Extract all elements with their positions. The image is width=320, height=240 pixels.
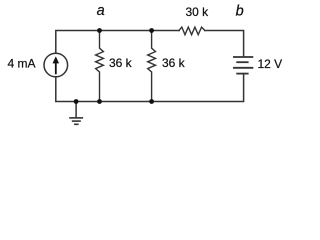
svg-text:12 V: 12 V bbox=[258, 57, 283, 71]
resistor R1 36 k bbox=[96, 31, 104, 102]
wire bottom rail bbox=[56, 74, 244, 102]
wire top rail left bbox=[56, 31, 179, 54]
junction dot top R2 bbox=[149, 28, 154, 33]
ground bbox=[69, 102, 83, 125]
svg-text:36 k: 36 k bbox=[109, 56, 133, 70]
svg-text:4 mA: 4 mA bbox=[8, 57, 36, 71]
junction dot bottom R2 bbox=[149, 99, 154, 104]
junction dot bottom R1 bbox=[97, 99, 102, 104]
battery V1 plates bbox=[233, 57, 253, 74]
wire top right segment bbox=[205, 31, 244, 57]
junction dot ground bbox=[74, 99, 79, 104]
svg-text:b: b bbox=[236, 4, 244, 20]
current source I1 arrow bbox=[53, 56, 60, 74]
resistor R3 30 k bbox=[179, 27, 205, 35]
resistor R2 36 k bbox=[148, 31, 156, 102]
svg-text:36 k: 36 k bbox=[162, 56, 186, 70]
svg-text:30 k: 30 k bbox=[186, 5, 210, 19]
junction node a dot bbox=[97, 28, 102, 33]
current source I1 circle bbox=[44, 53, 68, 77]
svg-text:a: a bbox=[97, 3, 105, 19]
